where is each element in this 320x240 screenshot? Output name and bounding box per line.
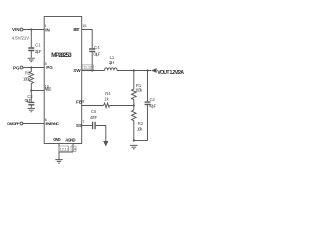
- svg-text:15: 15: [82, 24, 86, 28]
- svg-text:PG: PG: [46, 65, 53, 70]
- svg-text:C4: C4: [94, 45, 100, 50]
- svg-text:GND: GND: [53, 137, 61, 142]
- svg-text:47µF: 47µF: [149, 104, 156, 109]
- svg-text:C1: C1: [35, 42, 41, 47]
- svg-text:47nF: 47nF: [90, 115, 98, 120]
- svg-text:2µH: 2µH: [109, 60, 114, 65]
- svg-text:VIN: VIN: [12, 27, 20, 32]
- svg-text:C5: C5: [91, 109, 97, 114]
- svg-text:0.1µF: 0.1µF: [25, 98, 32, 103]
- svg-text:SW: SW: [73, 68, 81, 73]
- svg-text:R2: R2: [25, 70, 31, 75]
- svg-text:10k: 10k: [137, 126, 143, 131]
- svg-text:C2: C2: [150, 97, 156, 102]
- svg-text:22µF: 22µF: [35, 49, 42, 54]
- svg-text:SS: SS: [76, 123, 82, 128]
- svg-text:ON/OFF: ON/OFF: [7, 121, 20, 126]
- svg-text:FB: FB: [76, 100, 83, 105]
- svg-text:12,13: 12,13: [60, 147, 69, 151]
- svg-text:MP28253: MP28253: [51, 52, 72, 59]
- svg-text:VCC: VCC: [45, 87, 52, 92]
- svg-text:0.1µF: 0.1µF: [93, 52, 100, 57]
- svg-text:R4: R4: [105, 91, 111, 96]
- svg-text:8: 8: [82, 100, 84, 104]
- svg-text:100k: 100k: [135, 87, 143, 92]
- svg-text:100k: 100k: [23, 77, 31, 82]
- svg-text:PG: PG: [13, 66, 20, 71]
- svg-text:BST: BST: [73, 27, 79, 32]
- svg-text:11,12: 11,12: [83, 66, 92, 70]
- svg-text:4.5V/21V: 4.5V/21V: [12, 35, 29, 40]
- svg-text:AGND: AGND: [65, 137, 75, 142]
- svg-text:R2: R2: [138, 121, 144, 126]
- svg-text:7: 7: [82, 120, 84, 124]
- svg-text:14: 14: [72, 147, 76, 151]
- svg-text:EN/SYNC: EN/SYNC: [46, 121, 60, 126]
- svg-text:VOUT 1.2V/2A: VOUT 1.2V/2A: [157, 70, 184, 76]
- svg-text:IN: IN: [45, 27, 50, 32]
